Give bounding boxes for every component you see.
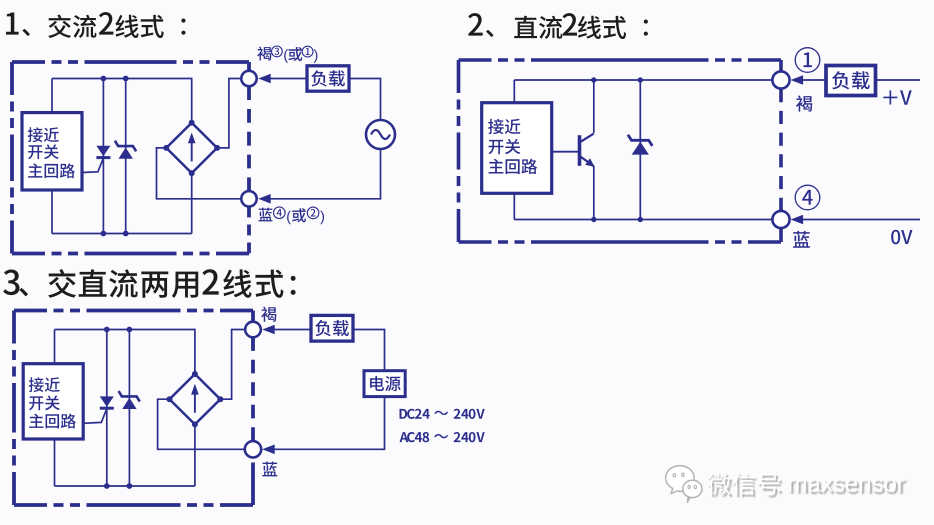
arrow into terminal 4: [791, 215, 804, 225]
junction node collector: [591, 77, 596, 82]
thyristor Q1: [82, 146, 110, 173]
AC source G1: [366, 120, 395, 149]
wire load box to power box: [353, 330, 385, 371]
junction node bottom zener c3: [126, 483, 132, 489]
wire box bottom connector: [51, 190, 53, 234]
wire bottom bus circuit 3: [55, 485, 195, 487]
label 蓝 circuit 3: [262, 462, 277, 477]
thyristor Q3: [83, 396, 114, 423]
wire bottom bus: [52, 233, 192, 235]
wire transistor emitter branch: [593, 166, 595, 220]
wire load to brown terminal c3: [274, 329, 311, 331]
terminal blue (蓝) circuit 1: [241, 191, 256, 206]
title: 1、交流2线式: [6, 12, 186, 38]
junction node bottom thyristor: [101, 231, 107, 237]
wire box bottom connector circuit 2: [513, 193, 515, 219]
wire diamond right to brown terminal c3: [220, 330, 245, 400]
label 褐 circuit 2: [796, 95, 812, 111]
junction node top zener c3: [126, 327, 132, 333]
wire box top connector circuit 2: [513, 80, 515, 103]
wire zener branch: [125, 79, 127, 234]
wire box top connector circuit 3: [54, 330, 56, 364]
arrow into brown terminal c3: [262, 325, 275, 335]
label AC48~240V: [400, 432, 485, 442]
wire transistor base: [552, 151, 580, 153]
wire top bus: [52, 79, 192, 125]
junction node top thyristor: [101, 76, 107, 82]
zener diode D1: [115, 141, 136, 159]
load box (负载) circuit 2: [826, 66, 876, 96]
current source diamond B1: [163, 120, 220, 176]
wire zener branch circuit 3: [128, 330, 130, 487]
wire power box to blue terminal c3: [274, 397, 385, 450]
label DC24~240V: [400, 409, 485, 419]
watermark wechat logo and id: [666, 466, 907, 503]
proximity switch main circuit box (接近开关主回路) U1: [22, 113, 82, 190]
label circled 1: [795, 48, 820, 73]
junction node top thyristor c3: [104, 327, 110, 333]
junction node bottom thyristor c3: [104, 483, 110, 489]
junction node emitter: [591, 217, 596, 222]
label 褐 circuit 3: [261, 307, 276, 322]
load box (负载) circuit 1: [307, 66, 349, 91]
load box (负载) circuit 3: [311, 315, 353, 341]
wire load to AC source: [349, 79, 381, 121]
current source diamond B3: [167, 371, 224, 427]
label 0V: [891, 230, 912, 245]
terminal blue (蓝) circuit 3: [245, 441, 261, 457]
wire top bus circuit 2: [514, 79, 772, 81]
wire diamond bottom c3: [194, 424, 196, 486]
arrow into blue terminal c3: [262, 445, 275, 455]
arrow into brown terminal: [258, 74, 271, 84]
junction node zener bottom c2: [638, 217, 643, 222]
wire box bottom connector circuit 3: [54, 439, 56, 486]
junction node zener top c2: [638, 77, 643, 82]
arrow into terminal 1: [791, 75, 804, 85]
zener diode D3: [119, 391, 140, 409]
wire load to +V: [876, 79, 921, 81]
wire load to brown terminal: [270, 78, 307, 80]
label 褐③(或①): [257, 46, 317, 63]
dashed enclosure box circuit 1: [12, 62, 249, 254]
dashed enclosure box circuit 2: [459, 60, 782, 242]
terminal 4 (blue) circuit 2: [772, 211, 789, 228]
terminal brown (褐) circuit 1: [241, 71, 256, 86]
terminal brown (褐) circuit 3: [245, 322, 261, 338]
proximity switch main circuit box (接近开关主回路) U3: [23, 364, 83, 439]
zener diode D2: [628, 135, 652, 155]
wire diamond left to blue terminal c3: [158, 399, 245, 449]
transistor Q2 (NPN): [580, 134, 595, 167]
power box (电源): [364, 371, 405, 397]
wire 0V to terminal 4: [802, 219, 920, 221]
dashed enclosure box circuit 3: [14, 311, 253, 506]
label circled 4: [795, 185, 820, 210]
label +V: [883, 90, 911, 104]
wire bottom bus circuit 2: [514, 219, 772, 221]
wire AC source to blue terminal: [270, 149, 381, 199]
arrow into blue terminal: [258, 194, 271, 204]
junction node bottom zener: [123, 231, 129, 237]
proximity switch main circuit box (接近开关主回路) U2: [482, 103, 552, 194]
terminal 1 (brown) circuit 2: [772, 71, 789, 88]
wire arrow to load box c2: [802, 79, 826, 81]
wire top bus circuit 3: [55, 330, 195, 376]
wire diamond bottom: [191, 173, 193, 233]
wire transistor collector branch: [593, 80, 595, 133]
wire thyristor branch circuit 3: [106, 330, 108, 487]
label 蓝④(或②): [259, 207, 324, 224]
title: 3、交直流两用2线式: [3, 269, 295, 298]
title: 2、直流2线式: [468, 13, 648, 39]
wire diamond right to brown terminal: [217, 79, 241, 148]
wire thyristor branch: [102, 79, 104, 234]
label 蓝 circuit 2: [793, 231, 810, 248]
junction node top zener: [123, 76, 129, 82]
wire box top connector: [51, 79, 53, 114]
wire zener branch circuit 2: [639, 80, 641, 220]
wire diamond left to blue terminal: [157, 148, 242, 199]
